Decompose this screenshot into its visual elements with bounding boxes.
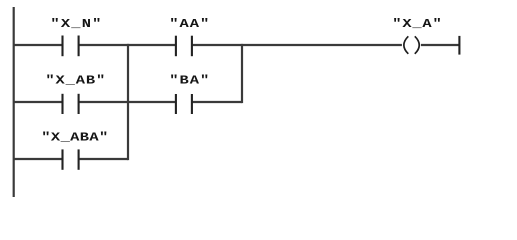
svg-text:"X_ABA": "X_ABA" [41,131,108,145]
svg-text:"X_A": "X_A" [392,17,442,31]
svg-text:"BA": "BA" [169,74,209,88]
svg-text:"AA": "AA" [169,17,209,31]
svg-text:"X_N": "X_N" [50,17,101,31]
svg-text:"X_AB": "X_AB" [45,74,105,88]
